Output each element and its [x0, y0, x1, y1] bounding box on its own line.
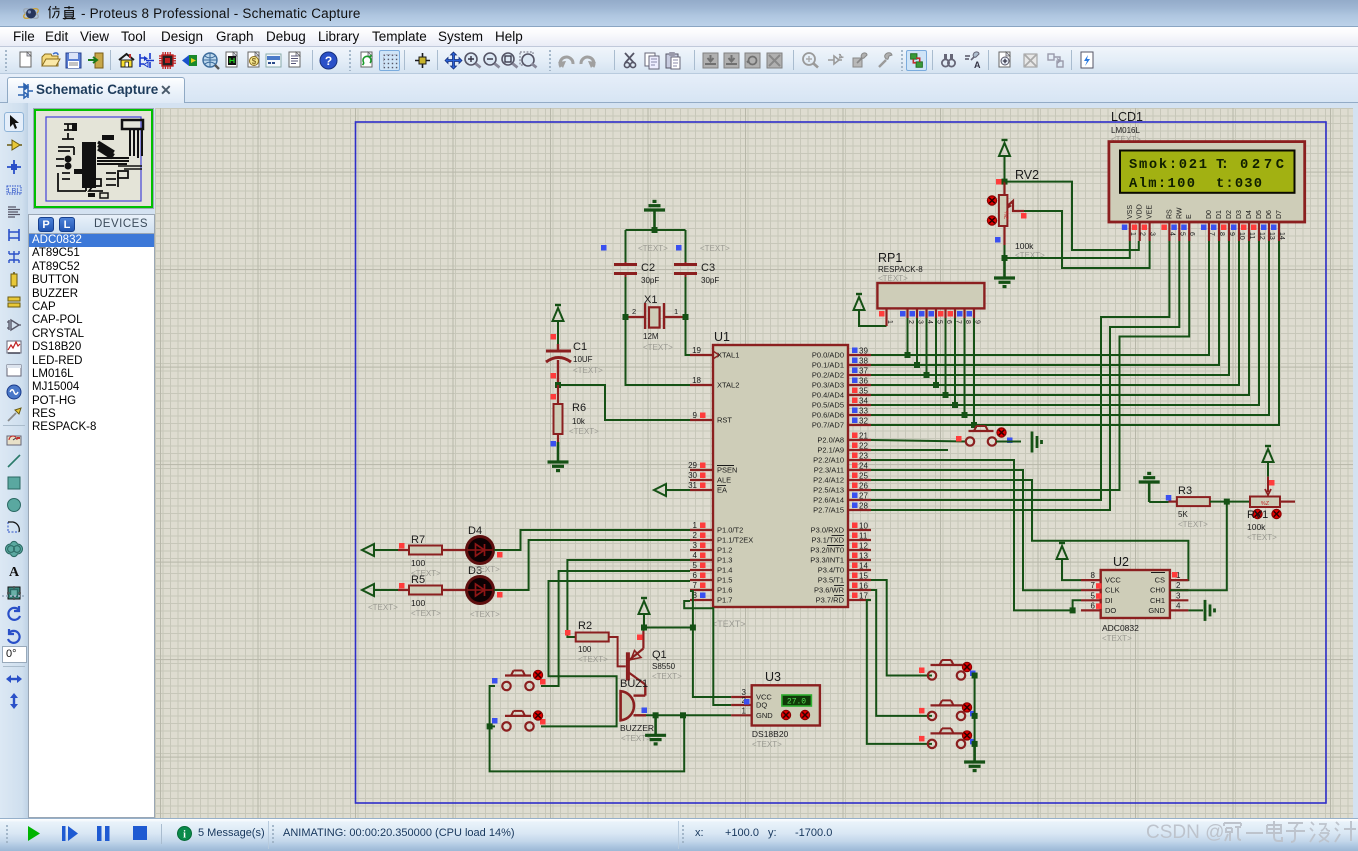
svg-text:i: i [183, 830, 186, 841]
svg-text:100: 100 [411, 598, 425, 608]
U1 pin 25 P2.4/A12 [848, 479, 871, 481]
svg-text:VSS: VSS [1127, 205, 1134, 219]
svg-text:3: 3 [1176, 591, 1181, 600]
sheet border [356, 122, 1327, 803]
svg-text:P0.6/AD6: P0.6/AD6 [812, 411, 844, 420]
svg-text:RW: RW [1176, 207, 1183, 219]
wire R3 to RV1 [1210, 501, 1250, 503]
U1 pin 22 P2.1/A9 [848, 449, 871, 451]
wire RV2 wiper to LCD VEE [1024, 211, 1150, 268]
svg-text:6: 6 [693, 571, 698, 580]
svg-text:C2: C2 [641, 262, 655, 274]
potentiometer RV1 100k [1250, 497, 1280, 508]
svg-text:D2: D2 [1226, 210, 1233, 219]
svg-text:9: 9 [693, 411, 698, 420]
svg-text:P3.1/TXD: P3.1/TXD [811, 536, 844, 545]
U1 pin 15 P3.5/T1 [848, 579, 871, 581]
svg-text:RST: RST [717, 416, 732, 425]
svg-text:P0.0/AD0: P0.0/AD0 [812, 351, 844, 360]
U2 pin 8 VCC [1081, 579, 1101, 581]
U1 pin 14 P3.4/T0 [848, 569, 871, 571]
svg-text:5K: 5K [1178, 510, 1188, 519]
wire RP1 pin 5 to P0.3 [935, 318, 937, 385]
U1 pin 32 P0.7/AD7 [848, 424, 871, 426]
U1 pin 10 P3.0/RXD [848, 529, 871, 531]
svg-text:P1.6: P1.6 [717, 586, 732, 595]
svg-text:<TEXT>: <TEXT> [643, 343, 673, 352]
U1 pin 16 P3.6/WR [848, 589, 871, 591]
LCD pin 6 E [1188, 222, 1190, 241]
svg-text:DI: DI [1105, 596, 1113, 605]
svg-text:10: 10 [1238, 232, 1245, 240]
wire R2 to Q1 base [609, 637, 626, 666]
node R3/RV1/CH0 [1224, 499, 1230, 505]
wire U2 GND to ground [1188, 609, 1203, 611]
ground (RV2) [1003, 258, 1006, 278]
node button B left [487, 723, 493, 729]
wire RP1 pin1 to power [859, 311, 887, 326]
svg-text:9: 9 [1228, 232, 1235, 236]
svg-text:P3.3/INT1: P3.3/INT1 [810, 556, 844, 565]
svg-text:14: 14 [859, 562, 868, 571]
LCD pin 2 VDD [1139, 222, 1141, 241]
wire P2.5 to LCD E [871, 241, 1189, 490]
LED D4 (LED-RED) [467, 537, 494, 564]
svg-text:P0.7/AD7: P0.7/AD7 [812, 421, 844, 430]
svg-text:<TEXT>: <TEXT> [1247, 533, 1277, 542]
U1 pin 4 P1.3 [690, 559, 713, 561]
svg-text:1: 1 [742, 706, 747, 715]
wire P1.7 to U3 DQ [684, 601, 731, 705]
svg-text:28: 28 [859, 502, 868, 511]
svg-text:ALE: ALE [717, 476, 731, 485]
wire RV2 top to LCD VDD [1005, 182, 1139, 250]
node RV2 bottom / LCD VSS [1002, 255, 1008, 261]
svg-text:RV1: RV1 [1247, 509, 1268, 521]
node U3 GND rail [680, 712, 686, 718]
svg-text:U3: U3 [765, 670, 781, 684]
svg-text:PSEN: PSEN [717, 466, 737, 475]
svg-text:?: ? [325, 54, 332, 68]
svg-text:P2.4/A12: P2.4/A12 [813, 476, 844, 485]
svg-text:P2.0/A8: P2.0/A8 [817, 436, 844, 445]
svg-text:100: 100 [578, 645, 592, 654]
svg-text:$: $ [252, 57, 257, 66]
U1 pin 12 P3.2/INT0 [848, 549, 871, 551]
U1 pin 23 P2.2/A10 [848, 459, 871, 461]
svg-text:<TEXT>: <TEXT> [638, 244, 668, 253]
RP1 pin 2 [906, 308, 908, 318]
wire RP1 pin 2 to P0.0 [907, 318, 909, 355]
svg-text:36: 36 [859, 377, 868, 386]
wire P3.7 to button 3 [867, 600, 932, 744]
LCD pin 4 RS [1168, 222, 1170, 241]
svg-text:CLK: CLK [1105, 586, 1120, 595]
power terminal (C1 top) [553, 308, 564, 321]
svg-text:P3.4/T0: P3.4/T0 [818, 566, 844, 575]
node crystal pin2 [623, 314, 629, 320]
svg-text:P0.5/AD5: P0.5/AD5 [812, 401, 844, 410]
ground (R3 left, rotated) [1148, 482, 1151, 502]
svg-text:11: 11 [859, 532, 868, 541]
svg-text:7: 7 [1091, 581, 1096, 590]
U3 pin 1 GND [731, 714, 752, 716]
svg-text:D0: D0 [1206, 210, 1213, 219]
RP1 pin 6 [944, 308, 946, 318]
U1 pin 18 XTAL2 [690, 384, 713, 386]
svg-text:13: 13 [859, 552, 868, 561]
svg-text:35: 35 [859, 387, 868, 396]
U2 pin 4 GND [1170, 609, 1189, 611]
button (right 3) [928, 740, 936, 748]
svg-text:4: 4 [1176, 601, 1181, 610]
U1 pin 17 P3.7/RD [848, 599, 871, 601]
hanzi yi [1246, 832, 1263, 834]
svg-text:R3: R3 [1178, 485, 1192, 497]
U1 pin 24 P2.3/A11 [848, 469, 871, 471]
svg-text:R5: R5 [411, 574, 425, 586]
svg-text:14: 14 [1278, 232, 1285, 240]
U2 pin 1 CS [1170, 579, 1189, 581]
svg-text:<TEXT>: <TEXT> [712, 619, 746, 629]
LCD pin 8 D1 [1218, 222, 1220, 241]
svg-text:10UF: 10UF [573, 355, 593, 364]
potentiometer RV2 100k (vertical) [999, 195, 1008, 226]
wire P0.4/AD4 to LCD D4 [871, 241, 1249, 395]
U1 pin 37 P0.2/AD2 [848, 374, 871, 376]
svg-text:XTAL2: XTAL2 [717, 381, 739, 390]
svg-text:LM016L: LM016L [1111, 126, 1140, 135]
svg-text:30pF: 30pF [641, 276, 659, 285]
U1 pin 3 P1.2 [690, 549, 713, 551]
svg-text:%Z: %Z [1003, 211, 1009, 220]
svg-text:12: 12 [859, 542, 868, 551]
svg-text:30pF: 30pF [701, 276, 719, 285]
svg-text:P0.4/AD4: P0.4/AD4 [812, 391, 844, 400]
wire buttons to GND rail [490, 686, 685, 771]
svg-text:t:030: t:030 [1216, 177, 1262, 192]
U1 pin 30 ALE [690, 479, 713, 481]
U1 pin 11 P3.1/TXD [848, 539, 871, 541]
wire P2.7 to LCD RW [871, 241, 1179, 510]
svg-text:25: 25 [859, 472, 868, 481]
U1 pin 8 P1.7 [690, 599, 713, 601]
wire P0.2/AD2 to LCD D2 [871, 241, 1229, 375]
terminal (R7 left) [362, 544, 374, 556]
svg-text:P2.6/A14: P2.6/A14 [813, 496, 844, 505]
node Q1 emitter junction [641, 625, 647, 631]
svg-text:4: 4 [1168, 232, 1175, 236]
U1 pin 6 P1.5 [690, 579, 713, 581]
svg-text:8: 8 [1091, 571, 1096, 580]
U1 pin 2 P1.1/T2EX [690, 539, 713, 541]
capacitor C2 30pF [614, 263, 637, 266]
svg-text:CH0: CH0 [1150, 586, 1165, 595]
svg-text:R6: R6 [572, 402, 586, 414]
U3 temperature display 27.0 [782, 695, 812, 706]
svg-text:BUZZER: BUZZER [620, 723, 654, 733]
U1 pin 31 EA [690, 489, 713, 491]
RP1 pin 5 [935, 308, 937, 318]
capacitor C1 10UF (CAP-POL) [546, 350, 571, 353]
svg-text:T:: T: [1216, 158, 1229, 173]
svg-text:P3.5/T1: P3.5/T1 [818, 576, 844, 585]
svg-text:24: 24 [859, 462, 868, 471]
terminal (EA) [654, 484, 666, 496]
U2 pin 2 CH0 [1170, 589, 1189, 591]
LCD pin 9 D2 [1228, 222, 1230, 241]
wire RP1 pin 9 to P0.7 [973, 318, 975, 425]
LED D3 (LED-RED) [467, 577, 494, 604]
U2 ADC0832 body [1101, 570, 1170, 618]
U1 pin 39 P0.0/AD0 [848, 354, 871, 356]
svg-text:CH1: CH1 [1150, 596, 1165, 605]
resistor R7 100 [409, 546, 442, 555]
svg-text:P2.2/A10: P2.2/A10 [813, 456, 844, 465]
U1 pin 27 P2.6/A14 [848, 499, 871, 501]
svg-text:37: 37 [859, 367, 868, 376]
capacitor C3 30pF [674, 263, 697, 266]
node RST net (C1/R6 junction) [555, 382, 561, 388]
U2 pin 6 DO [1081, 609, 1101, 611]
wire D4 to U1 P1 [494, 530, 690, 550]
svg-text:VCC: VCC [1105, 576, 1121, 585]
ground (R6 bottom) [557, 442, 560, 462]
U1 pin 34 P0.5/AD5 [848, 404, 871, 406]
svg-text:P1.0/T2: P1.0/T2 [717, 526, 743, 535]
U3 pin 3 VCC [731, 696, 752, 698]
svg-text:C1: C1 [573, 341, 587, 353]
svg-text:RS: RS [1166, 209, 1173, 219]
svg-text:31: 31 [688, 481, 697, 490]
svg-text:23: 23 [859, 452, 868, 461]
svg-text:19: 19 [692, 346, 701, 355]
power terminal (RV2) [999, 143, 1010, 156]
wire button to ground [996, 441, 1021, 443]
ground (above C2/C3, rotated) [653, 210, 656, 230]
svg-text:39: 39 [859, 347, 868, 356]
node DI/DO tie [1070, 607, 1076, 613]
svg-text:P1.5: P1.5 [717, 576, 732, 585]
svg-text:D5: D5 [1256, 210, 1263, 219]
svg-text:32: 32 [859, 417, 868, 426]
svg-text:1: 1 [1129, 232, 1136, 236]
RP1 RESPACK-8 body [877, 283, 984, 308]
power terminal (Q1 emitter) [639, 601, 650, 614]
svg-text:R2: R2 [578, 620, 592, 632]
svg-text:D6: D6 [1266, 210, 1273, 219]
svg-text:P2.5/A13: P2.5/A13 [813, 486, 844, 495]
wire P1.3 to R2 [567, 560, 690, 637]
svg-text:D7: D7 [1276, 210, 1283, 219]
svg-text:D1: D1 [1216, 210, 1223, 219]
resistor R3 5K [1177, 497, 1210, 506]
RP1 pin 8 [963, 308, 965, 318]
U1 pin 35 P0.4/AD4 [848, 394, 871, 396]
wire C1/R6 junction to RST [558, 385, 690, 420]
svg-text:22: 22 [859, 442, 868, 451]
wire P2.0 to button [871, 440, 966, 442]
svg-text:1: 1 [886, 320, 893, 324]
svg-text:RP1: RP1 [878, 251, 902, 265]
svg-text:29: 29 [688, 461, 697, 470]
svg-text:LBL: LBL [8, 188, 21, 195]
svg-text:38: 38 [859, 357, 868, 366]
svg-text:VEE: VEE [1147, 205, 1154, 219]
ground (rotated right) [1204, 600, 1207, 621]
svg-text:16: 16 [859, 582, 868, 591]
svg-text:6: 6 [1188, 232, 1195, 236]
svg-text:Smok:021: Smok:021 [1129, 157, 1207, 173]
svg-text:5: 5 [1178, 232, 1185, 236]
RP1 pin 1 [885, 308, 887, 326]
svg-text:EA: EA [717, 486, 727, 495]
wire P1.4 to button A [541, 571, 690, 686]
U2 pin 5 DI [1081, 599, 1101, 601]
svg-text:P1.4: P1.4 [717, 566, 732, 575]
svg-text:DS18B20: DS18B20 [752, 729, 789, 739]
transistor Q1 S8550 (PNP) [626, 652, 630, 680]
node RV2 top [1002, 179, 1008, 185]
U1 AT89C51 microcontroller body [713, 345, 848, 607]
svg-text:<TEXT>: <TEXT> [700, 244, 730, 253]
svg-text:12: 12 [1258, 232, 1265, 240]
LCD pin 1 VSS [1129, 222, 1131, 241]
svg-text:CS: CS [1155, 576, 1165, 585]
wire RP1 pin 3 to P0.1 [916, 318, 918, 365]
hanzi dian [1267, 821, 1282, 841]
wire P3.5 to button 1 [871, 580, 932, 676]
svg-text:8: 8 [1218, 232, 1225, 236]
hanzi she [1310, 822, 1330, 842]
button (left A) [502, 682, 510, 690]
svg-text:10: 10 [859, 522, 868, 531]
svg-text:2: 2 [693, 531, 698, 540]
svg-text:R7: R7 [411, 534, 425, 546]
wire P1.6 down to U3 VCC [690, 591, 731, 697]
svg-text:7: 7 [1208, 232, 1215, 236]
wire RP1 pin 8 to P0.6 [964, 318, 966, 415]
svg-text:P0.1/AD1: P0.1/AD1 [812, 361, 844, 370]
button (P2.0) [966, 437, 974, 445]
svg-text:D4: D4 [1246, 210, 1253, 219]
svg-text:10k: 10k [572, 417, 586, 426]
svg-text:5: 5 [1091, 591, 1096, 600]
node C2/C3 top [652, 227, 658, 233]
wire P0.7/AD7 to LCD D7 [871, 241, 1279, 425]
U1 pin 1 P1.0/T2 [690, 529, 713, 531]
hanzi zi [1286, 823, 1305, 842]
U3 DS18B20 body [752, 685, 820, 725]
RV2 wiper [1007, 201, 1024, 211]
RP1 pin 9 [973, 308, 975, 318]
wire P2.3 to U2 CLK [871, 470, 1081, 590]
wire P0.6/AD6 to LCD D6 [871, 241, 1269, 415]
svg-text:11: 11 [1248, 232, 1255, 239]
svg-text:2: 2 [1139, 232, 1146, 236]
svg-text:DQ: DQ [756, 701, 767, 710]
svg-text:<TEXT>: <TEXT> [878, 274, 908, 283]
svg-text:VDD: VDD [1137, 204, 1144, 219]
svg-text:GND: GND [1148, 606, 1165, 615]
svg-text:<TEXT>: <TEXT> [470, 565, 500, 574]
svg-text:2: 2 [1176, 581, 1181, 590]
LCD pin 13 D6 [1268, 222, 1270, 241]
svg-text:D4: D4 [468, 525, 482, 537]
node P1.6/VCC column [690, 625, 696, 631]
LCD pin 11 D4 [1248, 222, 1250, 241]
ground (right buttons) [973, 742, 976, 762]
svg-text:P2.1/A9: P2.1/A9 [817, 446, 844, 455]
svg-text:<TEXT>: <TEXT> [573, 366, 603, 375]
svg-text:BUZ1: BUZ1 [620, 678, 648, 690]
U1 pin 36 P0.3/AD3 [848, 384, 871, 386]
svg-text:<TEXT>: <TEXT> [1102, 634, 1132, 643]
svg-text:3: 3 [693, 541, 698, 550]
node crystal pin1 [683, 314, 689, 320]
svg-text:<TEXT>: <TEXT> [652, 672, 682, 681]
svg-text:P1.2: P1.2 [717, 546, 732, 555]
wire RP1 pin 4 to P0.2 [926, 318, 928, 375]
svg-text:100k: 100k [1015, 241, 1034, 251]
U1 pin 7 P1.6 [690, 589, 713, 591]
svg-text:<TEXT>: <TEXT> [470, 610, 500, 619]
svg-text:P0.2/AD2: P0.2/AD2 [812, 371, 844, 380]
svg-text:LCD1: LCD1 [1111, 110, 1143, 124]
wire RP1 pin 6 to P0.4 [945, 318, 947, 395]
resistor R5 100 [409, 586, 442, 595]
svg-text:100k: 100k [1247, 522, 1266, 532]
wire EA [666, 489, 690, 491]
svg-text:15: 15 [859, 572, 868, 581]
wire P3.6 to button 2 [871, 590, 932, 716]
U2 pin 7 CLK [1081, 589, 1101, 591]
terminal (R5 left) [362, 584, 374, 596]
svg-text:<TEXT>: <TEXT> [1178, 520, 1208, 529]
wire DO tie to DI [1073, 600, 1081, 610]
LCD pin 3 VEE [1148, 222, 1150, 241]
U3 pin 2 DQ [731, 704, 752, 706]
LCD pin 14 D7 [1278, 222, 1280, 241]
wire Q1 junction to P1.6/U3 column [644, 627, 693, 629]
svg-text:A: A [9, 565, 20, 580]
svg-text:D3: D3 [1236, 210, 1243, 219]
power terminal (RV1) [1263, 449, 1274, 462]
resistor R6 10k (vertical) [554, 404, 563, 434]
LCD pin 7 D0 [1208, 222, 1210, 241]
wire P2.6 to LCD RS [871, 241, 1169, 500]
svg-text:P1.7: P1.7 [717, 596, 732, 605]
svg-text:RV2: RV2 [1015, 168, 1039, 182]
buzzer BUZ1 [644, 685, 646, 696]
LCD pin 12 D5 [1258, 222, 1260, 241]
U1 pin 28 P2.7/A15 [848, 509, 871, 511]
U1 pin 9 RST [690, 419, 713, 421]
wire RV2 bottom to LCD VSS [1005, 241, 1130, 258]
svg-text:E: E [1186, 214, 1193, 219]
svg-text:P0.3/AD3: P0.3/AD3 [812, 381, 844, 390]
svg-text:27.0: 27.0 [787, 698, 806, 707]
svg-text:P3.6/WR: P3.6/WR [814, 586, 845, 595]
svg-text:27: 27 [859, 492, 868, 501]
svg-text:P1.1/T2EX: P1.1/T2EX [717, 536, 753, 545]
svg-text:%Z: %Z [1261, 501, 1270, 507]
svg-text:100: 100 [411, 558, 425, 568]
ground (buzzer) [654, 715, 657, 735]
svg-text:GND: GND [756, 711, 773, 720]
svg-text:Alm:100: Alm:100 [1129, 176, 1195, 192]
svg-text:1: 1 [674, 307, 678, 316]
